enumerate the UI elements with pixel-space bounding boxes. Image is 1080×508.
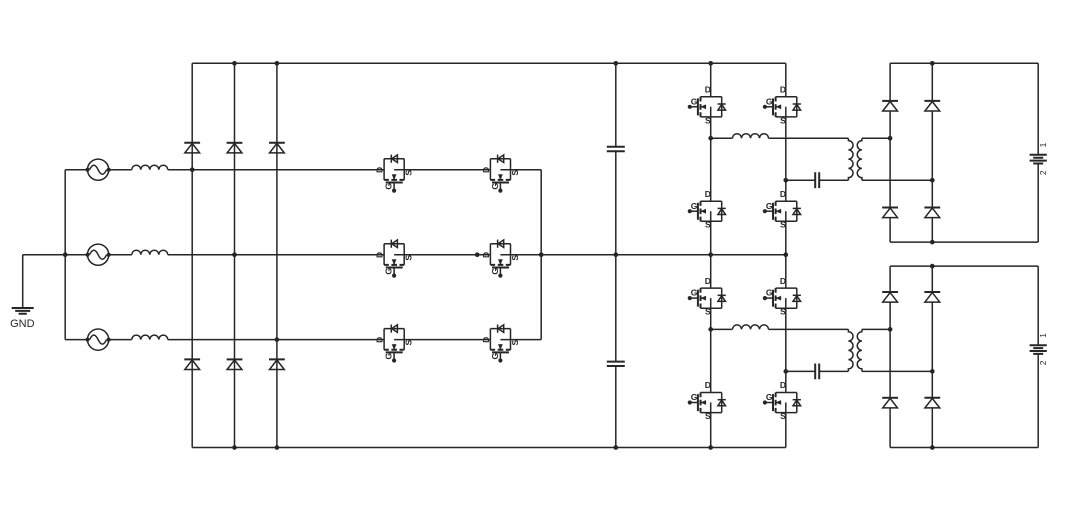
wire T2 secondary top [862, 328, 890, 330]
diode D4 [227, 359, 243, 369]
wire phase C mid [404, 339, 490, 341]
transistor Q6 phase C [481, 325, 520, 363]
node box1 secondary top [888, 136, 893, 141]
wire box1 rectifier leg 1 [889, 63, 891, 242]
transistor Q4 phase B [481, 240, 520, 278]
ac source VB [86, 244, 111, 265]
wire output box 2 top rail [890, 265, 1038, 267]
node mid bus cap [613, 252, 618, 257]
diode D13 [924, 292, 940, 302]
node phase B / leg 2 [232, 252, 237, 257]
svg-text:2: 2 [1038, 170, 1048, 175]
wire phase C to star point [511, 339, 542, 341]
wire box2 rectifier leg 2 [931, 266, 933, 447]
svg-text:1: 1 [1038, 333, 1048, 338]
transistor Q1 phase A [375, 155, 414, 193]
diode D9 [924, 101, 940, 111]
node top bus leg 2 [232, 61, 237, 66]
wire cap Cr2 leads [786, 370, 849, 372]
wire phase C source leads [65, 339, 132, 341]
node star point [539, 252, 544, 257]
wire phase B to bridge [168, 254, 384, 256]
svg-text:GND: GND [10, 318, 35, 330]
wire phase A source leads [65, 169, 132, 171]
wire phase B to DC mid bus [511, 254, 786, 256]
diode D10 [924, 208, 940, 218]
diode D14 [924, 398, 940, 408]
wire T1 secondary bottom [862, 179, 932, 181]
capacitor C1 [607, 147, 625, 151]
wire resonant tank 1 [711, 137, 849, 139]
wire phase B source leads [65, 254, 132, 256]
transformer T1 [848, 138, 862, 180]
inductor LB [132, 250, 168, 255]
wire bridge2 left leg [710, 255, 712, 448]
node top bus cap [613, 61, 618, 66]
diode D2 [184, 359, 200, 369]
wire rectifier leg 3 [276, 63, 278, 447]
transistor Q13 [763, 276, 801, 317]
wire bridge2 right leg [785, 255, 787, 448]
wire rectifier leg 1 [191, 63, 193, 447]
node bottom bus bridge A [708, 445, 713, 450]
wire bridge1 right leg [785, 63, 787, 254]
wire phase B mid [404, 254, 490, 256]
node bridge2 right midpoint [783, 369, 788, 374]
wire output box 2 bottom rail [890, 447, 1038, 449]
node top bus leg 3 [275, 61, 280, 66]
transistor Q9 [763, 85, 801, 126]
wire cap Cr1 leads [786, 179, 849, 181]
diode D12 [882, 398, 898, 408]
wire battery 1 leads [1037, 63, 1039, 242]
wire bottom DC bus [192, 447, 786, 449]
transistor Q5 phase C [375, 325, 414, 363]
capacitor Cr2 [815, 364, 819, 380]
diode D11 [882, 292, 898, 302]
inductor Lr2 [733, 325, 769, 330]
transistor Q3 phase B [375, 240, 414, 278]
svg-text:2: 2 [1038, 360, 1048, 365]
diode D1 [184, 143, 200, 153]
battery BT1 [1030, 155, 1047, 164]
wire phase A to star point [511, 169, 542, 171]
wire phase C to bridge [168, 339, 384, 341]
wire rectifier leg 2 [234, 63, 236, 447]
node phase C / leg 3 [275, 337, 280, 342]
wire neutral to ground [23, 255, 65, 307]
node bottom bus leg 2 [232, 445, 237, 450]
node mid bus bridge A [708, 252, 713, 257]
transistor Q10 [763, 189, 801, 230]
inductor LA [132, 165, 168, 170]
wire star point vertical [540, 170, 542, 340]
diode D3 [227, 143, 243, 153]
transistor Q8 [688, 189, 726, 230]
node mid bus bridge B [783, 252, 788, 257]
node bottom bus cap [613, 445, 618, 450]
wire phase A mid [404, 169, 490, 171]
diode D8 [882, 208, 898, 218]
diode D7 [882, 101, 898, 111]
node box2 bottom [930, 445, 935, 450]
node box2 secondary bottom [930, 369, 935, 374]
ground [10, 308, 35, 330]
transistor Q12 [688, 380, 726, 421]
transistor Q14 [763, 380, 801, 421]
transformer T2 [848, 329, 862, 371]
inductor Lr1 [733, 134, 769, 139]
transistor Q7 [688, 85, 726, 126]
node neutral junction [63, 252, 68, 257]
battery BT2 [1030, 345, 1047, 354]
ac source VC [86, 329, 111, 350]
node bridge1 right midpoint [783, 178, 788, 183]
wire neutral bus [64, 170, 66, 340]
wire DC-link cap lead lower [615, 255, 617, 448]
wire resonant tank 2 [711, 328, 849, 330]
wire T2 secondary bottom [862, 370, 932, 372]
node box1 bottom [930, 240, 935, 245]
transistor Q2 phase A [481, 155, 520, 193]
wire phase A to bridge [168, 169, 384, 171]
node box1 top [930, 61, 935, 66]
node phase A / leg 1 [190, 167, 195, 172]
wire DC-link cap lead upper [615, 63, 617, 254]
node bridge2 left midpoint [708, 327, 713, 332]
diode D5 [269, 143, 285, 153]
node box2 top [930, 264, 935, 269]
wire output box 1 bottom rail [890, 241, 1038, 243]
capacitor C2 [607, 362, 625, 366]
ac source VA [86, 159, 111, 180]
inductor LC [132, 335, 168, 340]
node top bus bridge A [708, 61, 713, 66]
diode D6 [269, 359, 285, 369]
wire top DC bus [192, 62, 786, 64]
node box2 secondary top [888, 327, 893, 332]
wire output box 1 top rail [890, 62, 1038, 64]
wire T1 secondary top [862, 137, 890, 139]
node phase B stub [475, 252, 480, 257]
wire box1 rectifier leg 2 [931, 63, 933, 242]
node bottom bus leg 3 [275, 445, 280, 450]
transistor Q11 [688, 276, 726, 317]
node box1 secondary bottom [930, 178, 935, 183]
wire box2 rectifier leg 1 [889, 266, 891, 447]
wire bridge1 left leg [710, 63, 712, 254]
wire battery 2 leads [1037, 266, 1039, 447]
node bridge1 left midpoint [708, 136, 713, 141]
capacitor Cr1 [815, 172, 819, 188]
svg-text:1: 1 [1038, 142, 1048, 147]
